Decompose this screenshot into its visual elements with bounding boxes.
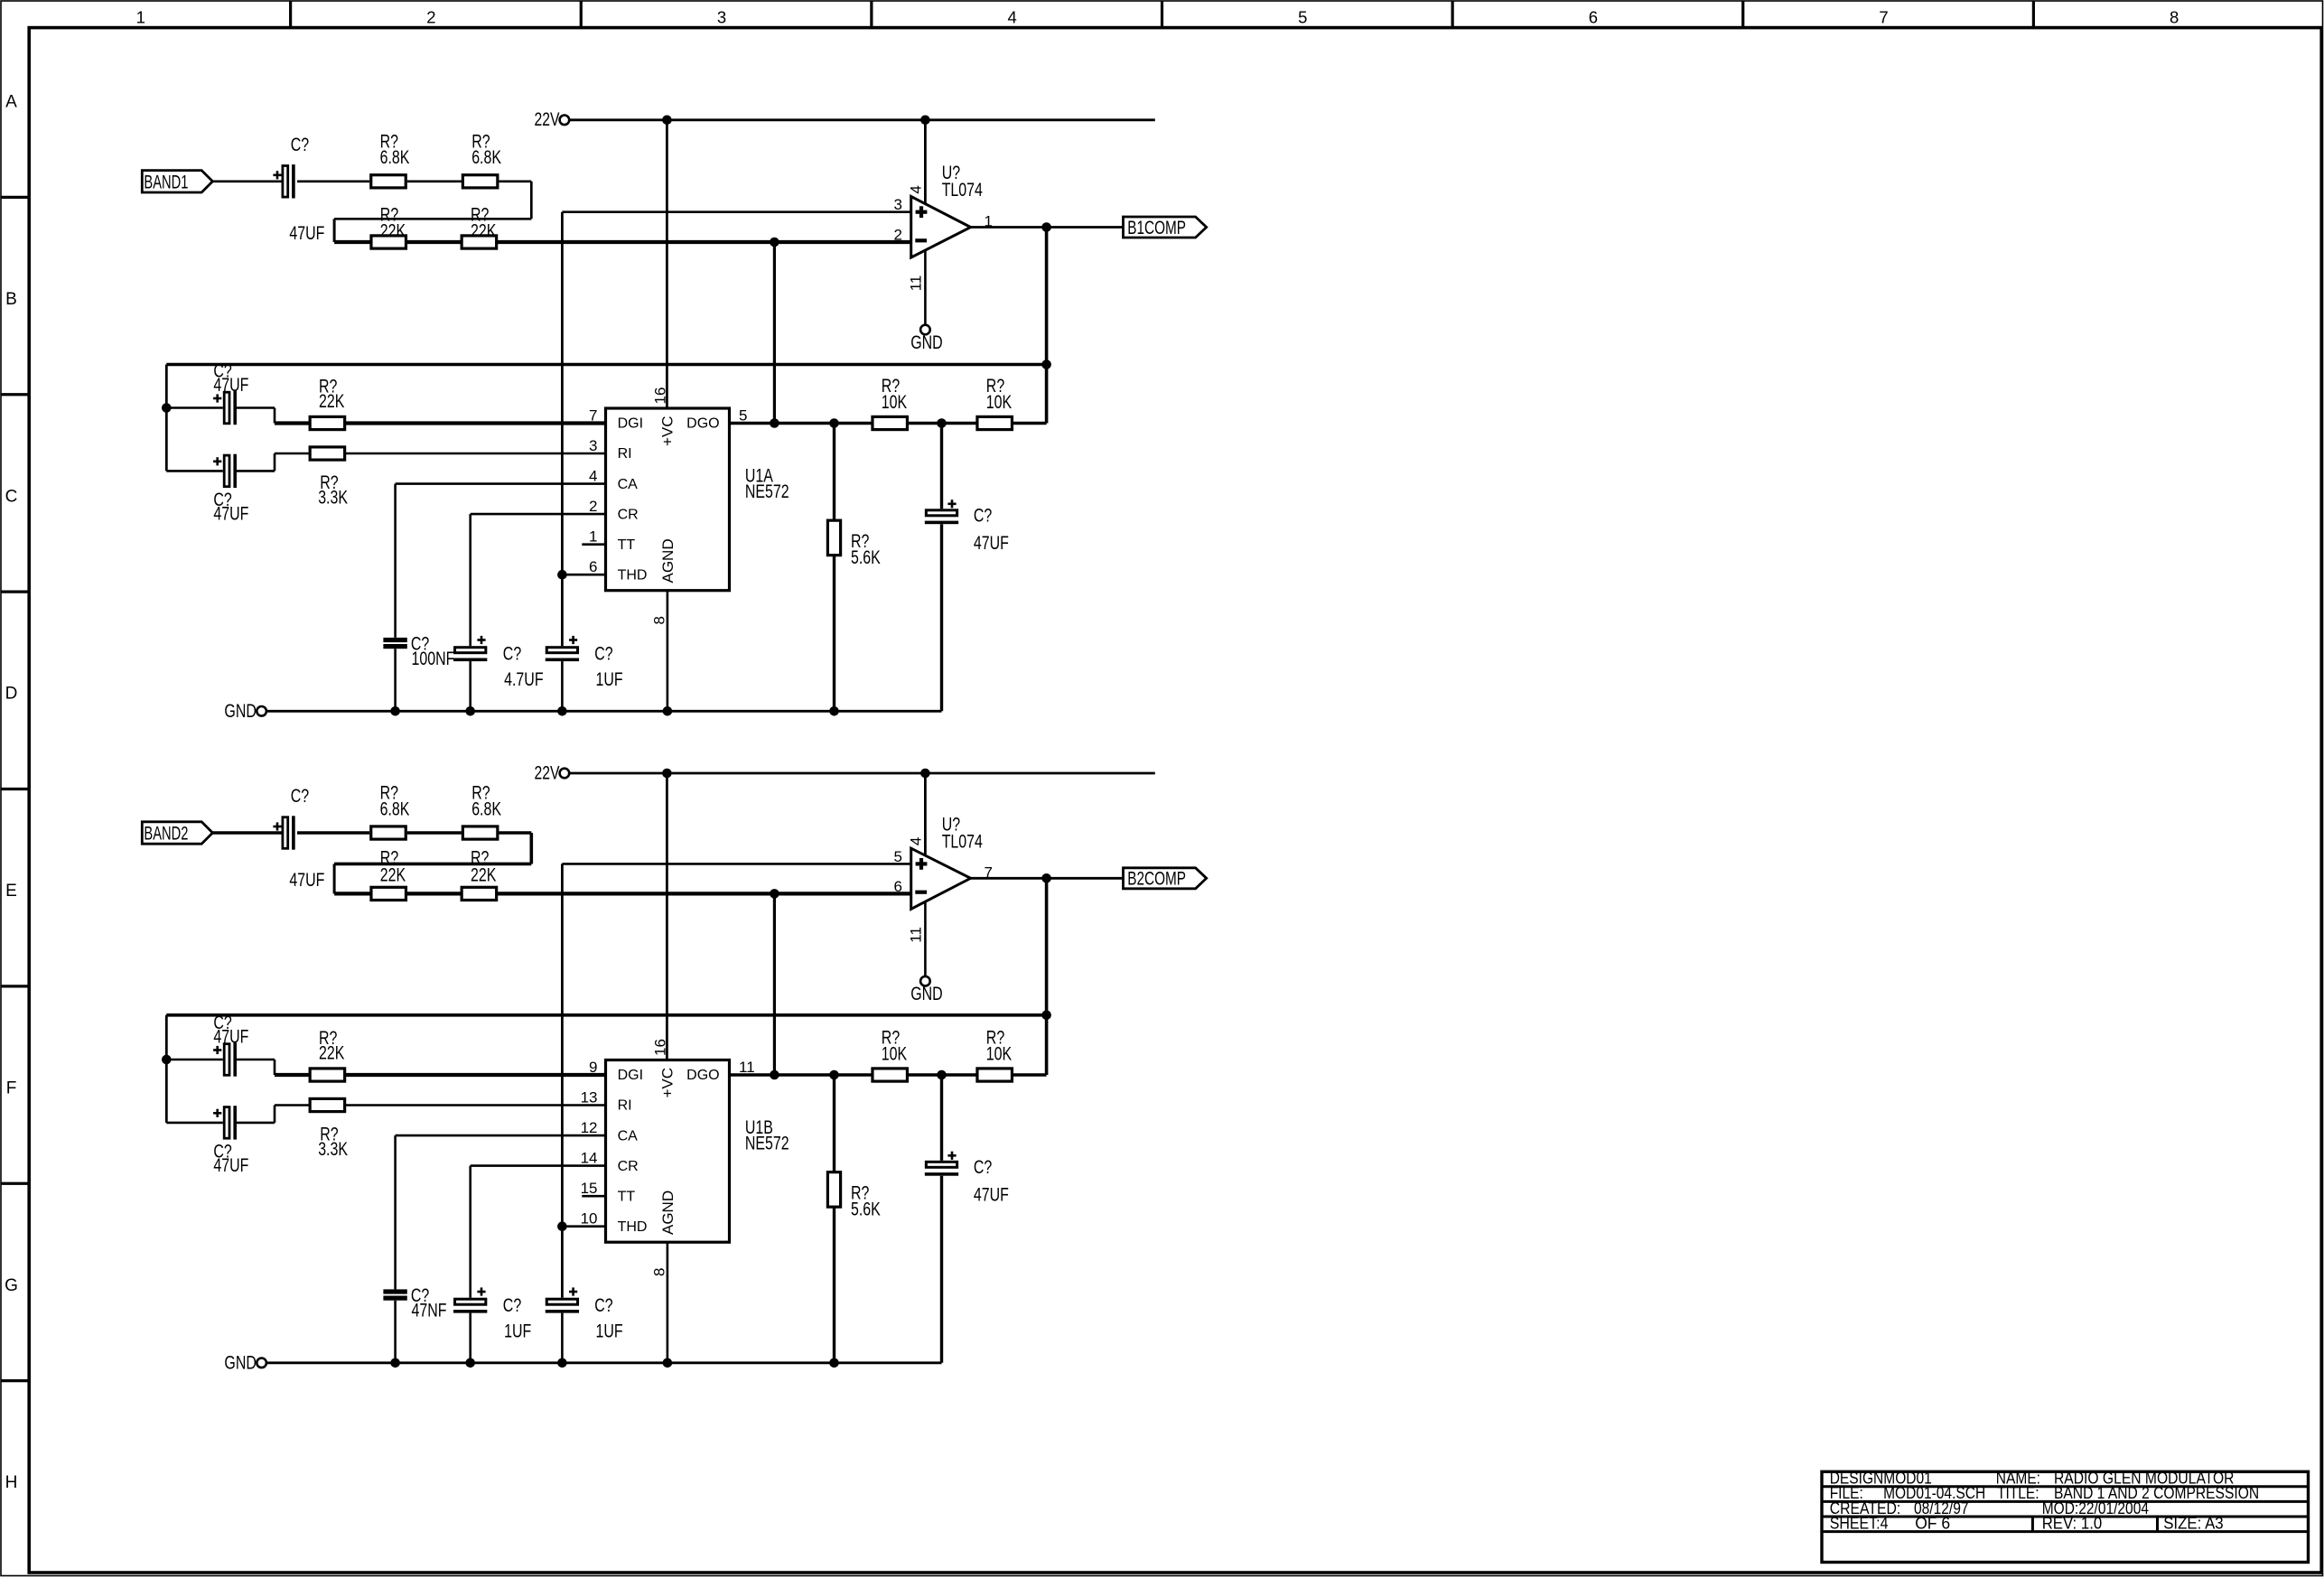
junction THD [557, 1221, 567, 1231]
svg-text:RI: RI [618, 446, 632, 462]
svg-text:5: 5 [739, 407, 747, 425]
svg-text:C?: C? [974, 506, 992, 527]
wire op-amp non-inverting input from THD net corner [562, 210, 910, 213]
svg-text:14: 14 [581, 1150, 598, 1167]
junction on 22V rail to +VC [662, 116, 672, 126]
svg-text:SIZE: A3: SIZE: A3 [2163, 1513, 2224, 1532]
junction DGO to 5.6K [829, 1070, 839, 1080]
wire junction down to DGO net [773, 242, 776, 424]
wire left vertical cap-return [165, 1015, 168, 1123]
wire BAND input to coupling cap [212, 180, 281, 182]
svg-text:NE572: NE572 [745, 1133, 789, 1153]
resistor R? 10K a [873, 416, 908, 429]
op-amp U? TL074 (band 2) [911, 848, 971, 909]
junction between 10K resistors to 47UF [937, 1070, 947, 1080]
wire lower run through 22K resistors to op-amp inverting input [334, 892, 911, 895]
svg-text:GND: GND [224, 1353, 257, 1374]
junction left caps [162, 403, 172, 413]
svg-text:H: H [5, 1473, 18, 1492]
svg-text:8: 8 [651, 616, 668, 624]
svg-text:11: 11 [908, 927, 925, 943]
junction on 22V rail to op-amp pin 4 [920, 769, 930, 779]
svg-text:C: C [5, 487, 18, 506]
capacitor C? 47NF on CA [383, 1289, 406, 1293]
IC U1A NE572 compander half [606, 408, 730, 591]
svg-text:CA: CA [618, 477, 639, 492]
junction feedback/cap-return tee [1041, 1011, 1051, 1021]
resistor R? 22K b [462, 887, 497, 900]
svg-text:1: 1 [589, 528, 597, 546]
svg-text:22K: 22K [471, 865, 496, 886]
resistor R? 6.8K b [462, 826, 498, 839]
svg-text:47UF: 47UF [289, 223, 324, 244]
junction on 22V rail to +VC [662, 769, 672, 779]
capacitor C? 100NF on CA [383, 638, 406, 642]
junction on inverting wire to DGO [770, 889, 779, 899]
junction DGO to 5.6K [829, 418, 839, 428]
capacitor C? 1UF on CR [455, 1299, 486, 1304]
svg-text:TL074: TL074 [942, 180, 983, 201]
junction on output wire [1041, 873, 1051, 883]
svg-text:6.8K: 6.8K [380, 147, 410, 168]
title row dividers [2031, 1517, 2034, 1532]
wire bracket 47UF divider [333, 219, 336, 242]
svg-text:4.7UF: 4.7UF [504, 669, 544, 690]
wire 22V to op-amp V+ pin 4 [924, 773, 927, 857]
svg-text:4: 4 [1008, 8, 1017, 27]
resistor R? 5.6K to GND [833, 424, 835, 712]
wire DGO pin 5 net [730, 1073, 1047, 1077]
svg-text:AGND: AGND [659, 1191, 677, 1235]
svg-text:9: 9 [589, 1059, 597, 1076]
resistor R? 3.3K on RI [310, 447, 345, 460]
capacitor C? 47UF on DGO divider [940, 1075, 943, 1161]
wire op-amp pin 11 to GND [924, 901, 927, 977]
svg-text:22K: 22K [380, 865, 406, 886]
capacitor C? 47UF on DGO divider [940, 424, 943, 509]
resistor R? 22K a [371, 236, 406, 248]
wire cap to R 6.8K a [297, 180, 369, 182]
resistor R? 6.8K a [371, 826, 406, 839]
svg-text:D: D [5, 685, 18, 704]
svg-text:8: 8 [651, 1268, 668, 1276]
input port BAND1 [142, 171, 212, 192]
svg-text:3.3K: 3.3K [318, 488, 348, 509]
resistor R? 22K on DGI [310, 416, 345, 429]
svg-text:2: 2 [426, 8, 435, 27]
resistor R? 6.8K b [462, 175, 498, 188]
svg-text:GND: GND [224, 701, 257, 722]
svg-text:10K: 10K [882, 1044, 907, 1065]
svg-text:3: 3 [589, 437, 597, 454]
capacitor C? 47UF coupling (band 2) [283, 817, 288, 849]
output port B1COMP [1124, 217, 1207, 238]
svg-text:10: 10 [581, 1210, 598, 1228]
junction DGO/feedback from op-amp minus [770, 1070, 779, 1080]
svg-text:22K: 22K [319, 1043, 344, 1064]
resistor R? 22K on DGI [310, 1069, 345, 1081]
svg-text:16: 16 [652, 1039, 669, 1056]
svg-text:OF 6: OF 6 [1915, 1513, 1950, 1532]
svg-text:47UF: 47UF [213, 1027, 248, 1048]
svg-text:47UF: 47UF [974, 1185, 1009, 1206]
svg-text:22K: 22K [380, 221, 406, 242]
svg-text:C?: C? [594, 1295, 612, 1316]
resistor R? 10K b [977, 1069, 1013, 1081]
resistor R? 6.8K a [371, 175, 406, 188]
wire CA pin to cap [396, 482, 606, 485]
svg-text:6: 6 [1589, 8, 1598, 27]
svg-text:DGO: DGO [686, 1068, 719, 1083]
svg-text:3: 3 [894, 196, 902, 213]
wire op-amp output to port [971, 877, 1124, 880]
wire 22V to NE572 +VC pin 16 [666, 773, 668, 1060]
capacitor C? 47UF to RI (band 1) [166, 470, 223, 472]
column ticks [289, 1, 292, 28]
capacitor C? 47UF to RI (band 2) [166, 1122, 223, 1125]
svg-text:C?: C? [503, 643, 521, 664]
resistor R? 22K a [371, 887, 406, 900]
resistor R? 5.6K to GND [833, 1075, 835, 1363]
wire 22V to NE572 +VC pin 16 [666, 120, 668, 408]
svg-text:47NF: 47NF [412, 1301, 447, 1321]
svg-text:6.8K: 6.8K [380, 798, 410, 819]
svg-text:5.6K: 5.6K [851, 547, 881, 568]
svg-text:A: A [5, 93, 17, 112]
wire BAND input to coupling cap [212, 831, 281, 835]
svg-text:+VC: +VC [659, 1068, 677, 1098]
svg-text:TT: TT [618, 1189, 636, 1204]
svg-text:4: 4 [908, 185, 925, 193]
junction on inverting wire to DGO [770, 238, 779, 247]
wire RI pin [275, 453, 606, 455]
wire 22V to op-amp V+ pin 4 [924, 120, 927, 206]
svg-text:RI: RI [618, 1098, 632, 1114]
svg-text:TITLE:: TITLE: [1997, 1483, 2039, 1502]
svg-text:47UF: 47UF [289, 870, 324, 891]
capacitor C? 4.7UF on CR [455, 648, 486, 653]
wire RI pin [275, 1104, 606, 1106]
svg-text:6: 6 [894, 878, 902, 895]
wire DGI pin [275, 1073, 606, 1077]
junction on 22V rail to op-amp pin 4 [920, 116, 930, 126]
wire bracket 47UF divider [333, 864, 336, 893]
input port BAND2 [142, 822, 212, 844]
wire CR pin to cap [471, 1164, 606, 1167]
wire left vertical cap-return [165, 365, 168, 472]
svg-text:15: 15 [581, 1180, 598, 1197]
svg-text:47UF: 47UF [974, 533, 1009, 554]
junction left caps [162, 1055, 172, 1065]
svg-text:TL074: TL074 [942, 832, 983, 853]
junction between 10K resistors to 47UF [937, 418, 947, 428]
resistor R? 10K a [873, 1069, 908, 1081]
svg-text:+VC: +VC [659, 416, 677, 446]
svg-text:13: 13 [581, 1089, 598, 1106]
wire output feedback vertical [1045, 228, 1049, 424]
svg-text:GND: GND [910, 332, 942, 353]
wire cap-return horizontal [166, 1013, 1046, 1017]
svg-text:C?: C? [503, 1295, 521, 1316]
svg-text:TT: TT [618, 537, 636, 553]
svg-text:AGND: AGND [659, 538, 677, 583]
wire cap-return horizontal [166, 363, 1046, 367]
wire corner down to upper run [530, 182, 533, 219]
svg-text:C?: C? [974, 1157, 992, 1178]
svg-text:GND: GND [910, 984, 942, 1004]
wire op-amp pin 11 to GND [924, 250, 927, 326]
svg-text:6.8K: 6.8K [471, 147, 501, 168]
svg-text:10K: 10K [986, 392, 1012, 413]
svg-text:47UF: 47UF [213, 375, 248, 396]
svg-text:B1COMP: B1COMP [1127, 218, 1186, 238]
svg-text:G: G [5, 1276, 18, 1295]
junction on output wire [1041, 222, 1051, 232]
capacitor C? 1UF on THD net [561, 1227, 564, 1298]
svg-text:22V: 22V [535, 109, 560, 130]
svg-text:22K: 22K [319, 391, 344, 412]
svg-text:C?: C? [594, 643, 612, 664]
row ticks [1, 196, 29, 199]
svg-text:4: 4 [908, 837, 925, 845]
resistor R? 10K b [977, 416, 1013, 429]
junction THD [557, 570, 567, 580]
svg-text:F: F [6, 1078, 17, 1097]
wire 6.8K b to corner [499, 831, 531, 835]
wire cap to R 6.8K a [297, 831, 369, 835]
wire upper run [334, 863, 531, 866]
svg-text:3.3K: 3.3K [318, 1139, 348, 1160]
svg-text:5: 5 [894, 848, 902, 865]
capacitor C? 47UF coupling (band 1) [283, 166, 288, 198]
svg-text:3: 3 [717, 8, 726, 27]
wire DGI pin [275, 421, 606, 425]
svg-text:E: E [5, 882, 17, 901]
output port B2COMP [1124, 868, 1207, 889]
wire DGO pin 5 net [730, 422, 1047, 425]
svg-text:CA: CA [618, 1128, 639, 1144]
pin TT stub [582, 543, 605, 546]
wire lower run through 22K resistors to op-amp inverting input [334, 240, 911, 244]
wire AGND pin 8 to GND rail [667, 591, 669, 712]
wire output feedback vertical [1045, 878, 1049, 1075]
svg-text:6: 6 [589, 558, 597, 575]
svg-text:5: 5 [1298, 8, 1307, 27]
svg-text:2: 2 [589, 498, 597, 515]
svg-text:12: 12 [581, 1119, 598, 1136]
capacitor C? 47UF to DGI (band 1) [166, 406, 223, 409]
svg-text:16: 16 [652, 387, 669, 405]
wire AGND pin 8 to GND rail [667, 1242, 669, 1363]
power flag GND under op-amp [920, 325, 930, 335]
wire junction down to DGO net [773, 893, 776, 1075]
svg-text:47UF: 47UF [213, 503, 248, 524]
svg-text:DGI: DGI [618, 1068, 643, 1083]
op-amp U? TL074 (band 1) [911, 197, 971, 258]
svg-text:1UF: 1UF [504, 1321, 531, 1342]
wire corner down to upper run [529, 833, 533, 864]
power flag GND under op-amp [920, 976, 930, 986]
wire R 6.8K a to b [407, 831, 462, 835]
svg-text:7: 7 [589, 407, 597, 425]
svg-text:22K: 22K [471, 221, 496, 242]
svg-text:10K: 10K [986, 1044, 1012, 1065]
wire upper run [334, 218, 531, 220]
capacitor C? 1UF on THD net [561, 574, 564, 646]
svg-text:THD: THD [618, 567, 648, 583]
svg-text:CR: CR [618, 507, 639, 522]
svg-text:C?: C? [291, 786, 309, 807]
svg-text:C?: C? [291, 135, 309, 155]
svg-text:SHEET:4: SHEET:4 [1830, 1513, 1889, 1532]
wire R 6.8K a to b [407, 180, 462, 182]
junction feedback/cap-return tee [1041, 359, 1051, 369]
resistor R? 3.3K on RI [310, 1098, 345, 1111]
vertical net wire x622 down to THD pin [561, 864, 564, 1226]
pin TT stub [582, 1195, 605, 1198]
svg-text:B2COMP: B2COMP [1127, 869, 1186, 890]
junction DGO/feedback from op-amp minus [770, 418, 779, 428]
svg-text:5.6K: 5.6K [851, 1200, 881, 1220]
wire THD pin [562, 1225, 605, 1228]
svg-text:1UF: 1UF [596, 1321, 623, 1342]
wire THD pin [562, 574, 605, 576]
svg-text:100NF: 100NF [412, 649, 455, 669]
svg-text:6.8K: 6.8K [471, 798, 501, 819]
title block [1822, 1471, 2309, 1562]
wire 6.8K b to corner [499, 180, 531, 182]
svg-text:11: 11 [739, 1059, 755, 1076]
wire CR pin to cap [471, 513, 606, 516]
svg-text:THD: THD [618, 1219, 648, 1235]
svg-text:8: 8 [2170, 8, 2179, 27]
IC U1B NE572 compander half [606, 1060, 730, 1243]
wire CA pin to cap [396, 1134, 606, 1137]
capacitor C? 47UF to DGI (band 2) [166, 1059, 223, 1061]
svg-text:B: B [5, 290, 17, 309]
svg-text:REV: 1.0: REV: 1.0 [2042, 1513, 2103, 1532]
vertical net wire x622 down to THD pin [561, 212, 564, 575]
svg-text:BAND2: BAND2 [144, 824, 188, 845]
svg-text:11: 11 [908, 275, 925, 292]
svg-text:NE572: NE572 [745, 481, 789, 502]
svg-text:DGO: DGO [686, 416, 719, 432]
svg-text:1UF: 1UF [596, 669, 623, 690]
svg-text:47UF: 47UF [213, 1155, 248, 1176]
svg-text:2: 2 [894, 227, 902, 244]
svg-text:4: 4 [589, 468, 597, 485]
wire op-amp non-inverting input from THD net corner [562, 863, 910, 865]
svg-text:DGI: DGI [618, 416, 643, 432]
svg-text:22V: 22V [535, 762, 560, 783]
svg-text:CR: CR [618, 1159, 639, 1174]
svg-text:1: 1 [136, 8, 145, 27]
svg-text:BAND1: BAND1 [144, 172, 188, 192]
svg-text:10K: 10K [882, 392, 907, 413]
svg-text:7: 7 [1879, 8, 1888, 27]
wire op-amp output to port [971, 226, 1124, 229]
resistor R? 22K b [462, 236, 497, 248]
